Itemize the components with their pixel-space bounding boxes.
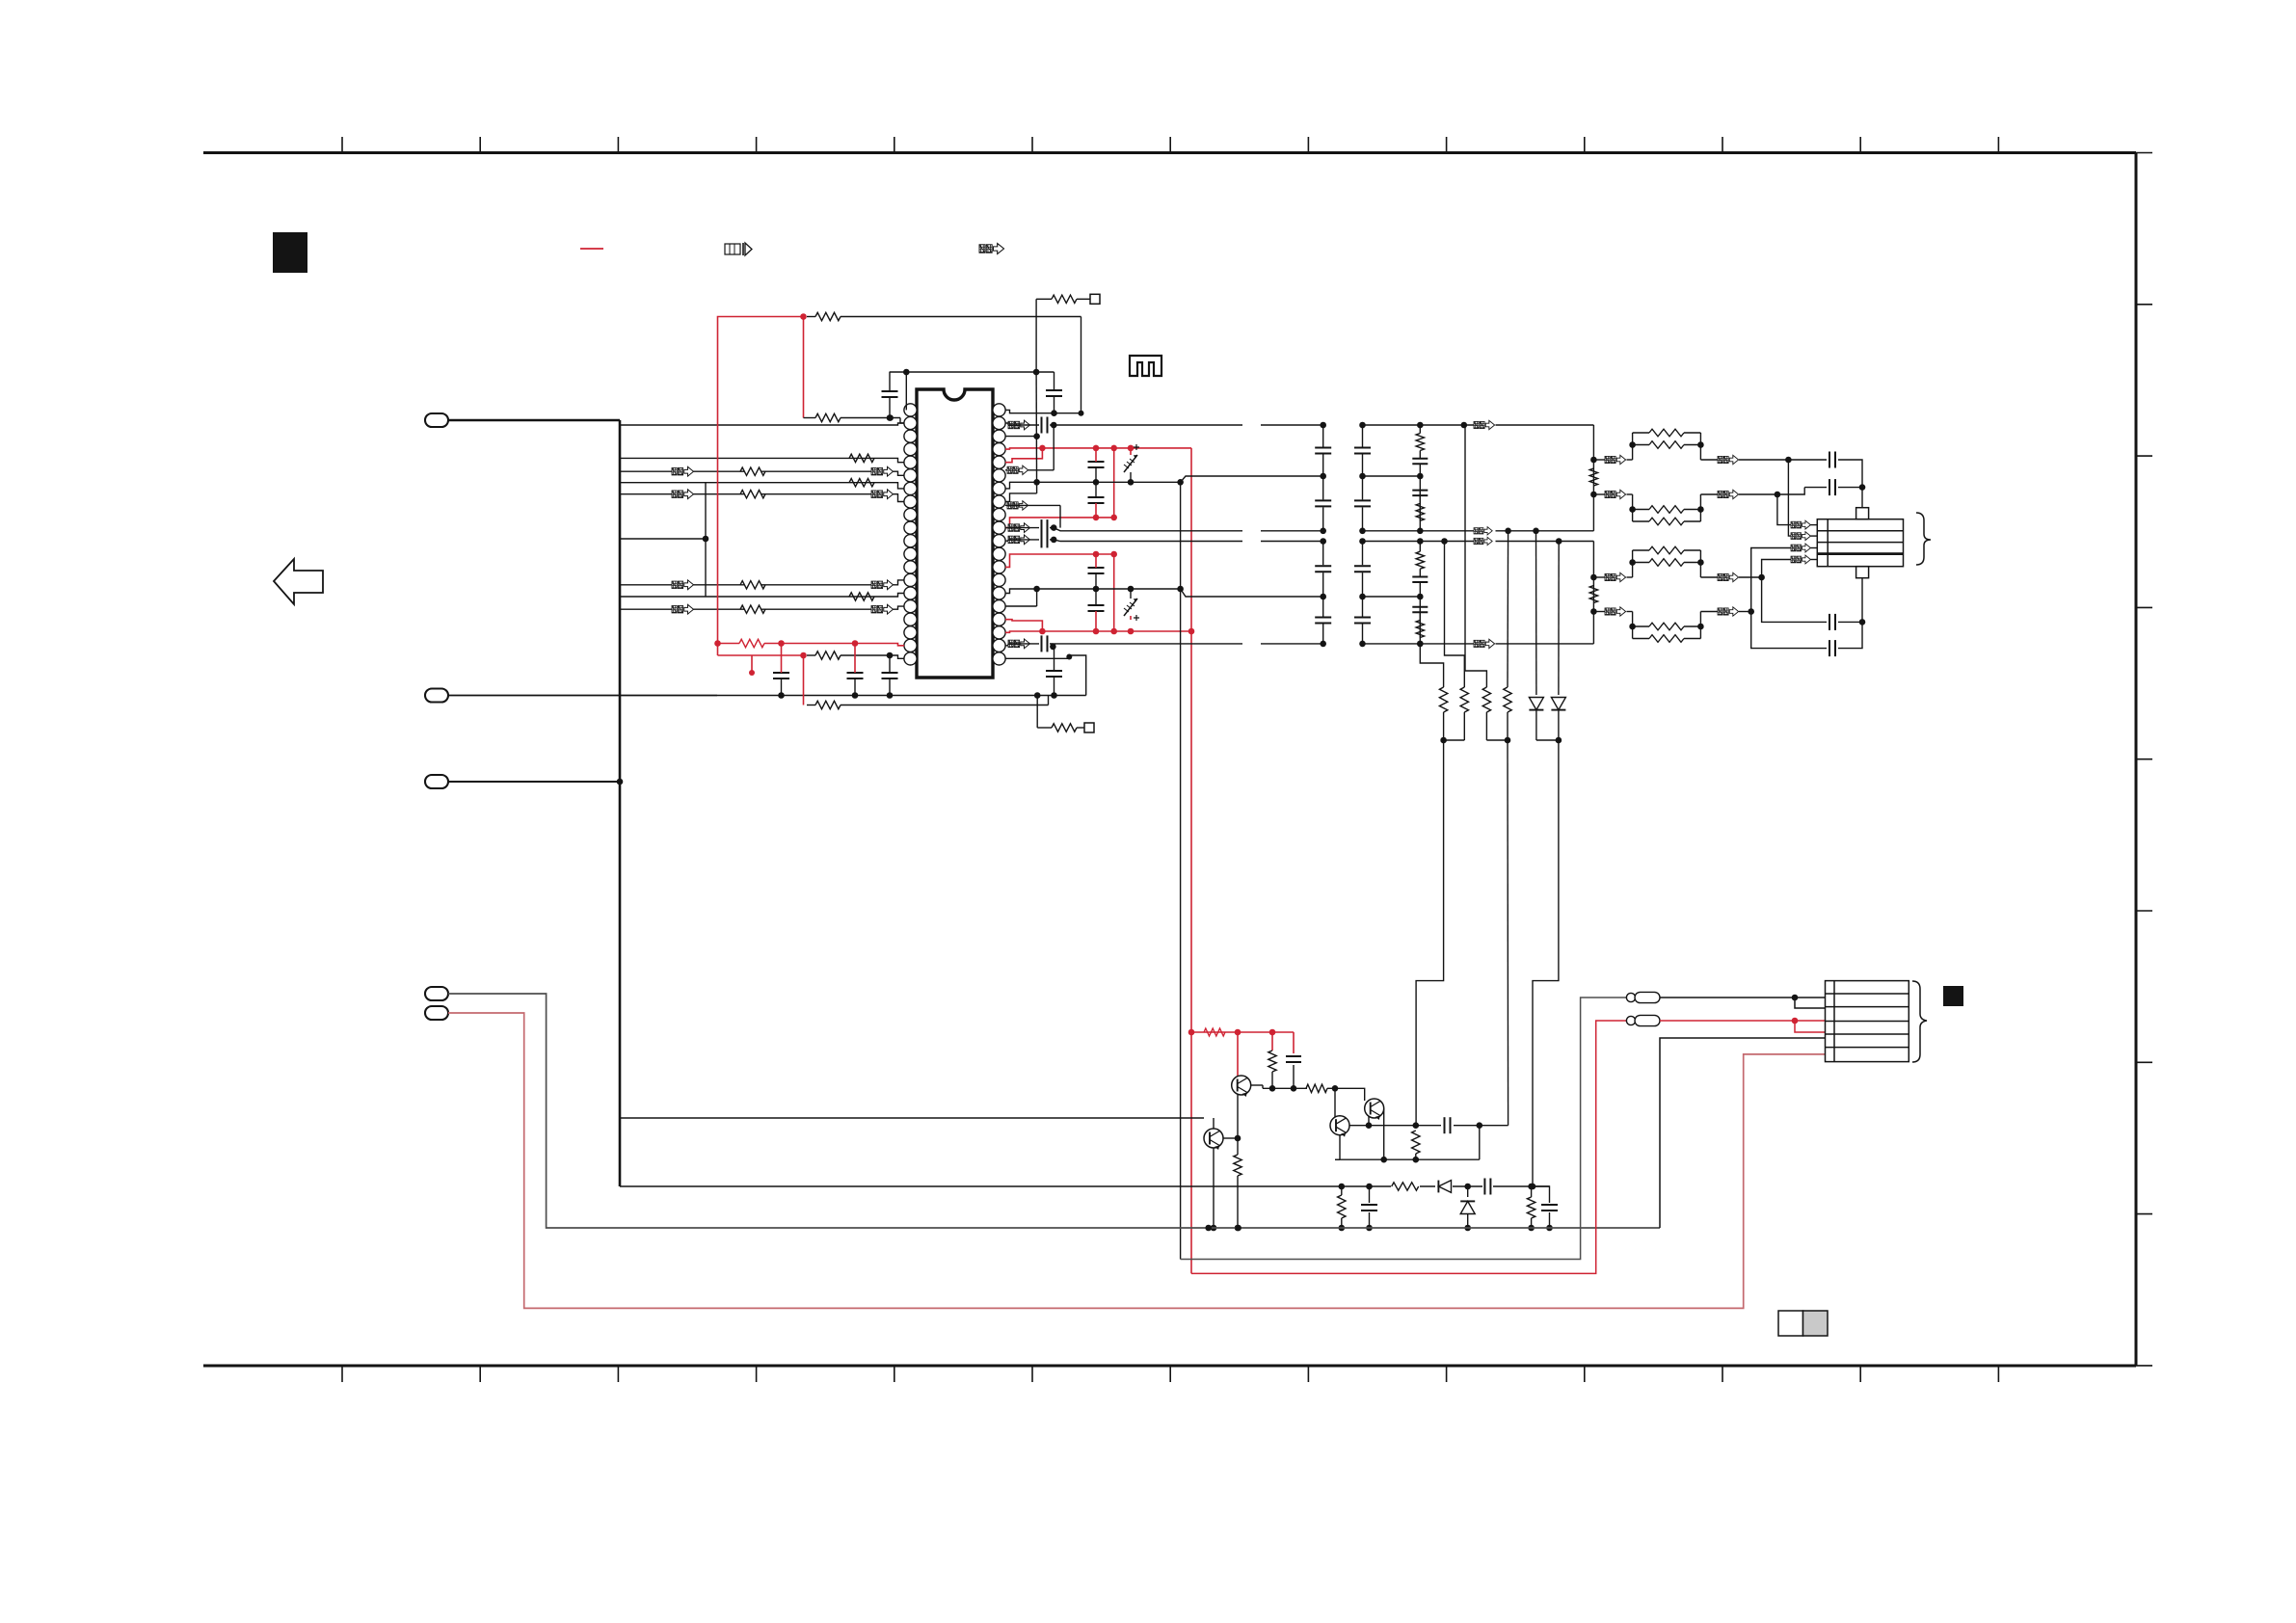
left plain rows bus to IC xyxy=(620,423,904,597)
row 494 end xyxy=(0,0,1,1)
RCA plug P2 xyxy=(1626,1015,1660,1025)
red jog pin5 xyxy=(1005,448,1042,463)
wire CN2 ground rail lead xyxy=(448,695,717,697)
page frame right border xyxy=(2135,153,2138,1367)
connector CN1 xyxy=(425,413,448,427)
desc wire v2 xyxy=(1444,542,1469,741)
transistor Q4 xyxy=(1204,1129,1223,1151)
top border fold ticks xyxy=(342,137,1998,153)
black rail mid1 xyxy=(1014,479,1184,486)
Q3 base link xyxy=(1335,1088,1365,1101)
long wire v1 xyxy=(1416,740,1444,1126)
trimmer RV2 xyxy=(1124,589,1139,621)
Q3 emitter down xyxy=(1383,1108,1385,1159)
IC U1 body xyxy=(917,389,993,678)
audio row2 xyxy=(1005,519,1242,536)
resistor pair RP1 xyxy=(1593,429,1718,460)
left arrow rows bus to IC xyxy=(620,471,904,609)
red wire to Q1 xyxy=(1237,1032,1239,1076)
resistor pair RP4 xyxy=(1593,612,1718,643)
Q4 wires xyxy=(1214,1118,1241,1141)
cap C16 xyxy=(1416,1117,1482,1133)
red link C-D xyxy=(1113,554,1115,631)
resistor pair RP3 xyxy=(1593,546,1718,577)
branch right upper xyxy=(1181,476,1323,482)
row 552 to ladder xyxy=(1420,527,1593,535)
desc diode D3 xyxy=(1529,531,1559,740)
long wire v2 xyxy=(1507,740,1509,1126)
desc wire v4 xyxy=(1504,531,1511,744)
connector CN4 xyxy=(425,987,448,1000)
cap C13 xyxy=(1762,577,1866,630)
left pin net arrows xyxy=(871,466,894,614)
wire TP2 lead xyxy=(1037,727,1084,729)
headphone block J2 xyxy=(1826,981,1909,1062)
IC top rail xyxy=(890,369,1055,376)
motor M1 brace xyxy=(1916,513,1931,565)
resistor R7 to TP2 xyxy=(1052,724,1077,732)
cap C7 xyxy=(1088,448,1105,482)
red link A-B xyxy=(1113,448,1115,518)
transistor Q2 xyxy=(1330,1116,1349,1138)
page frame bottom border xyxy=(203,1365,2136,1368)
pin3 row xyxy=(1005,436,1037,438)
net arrow l2b xyxy=(1718,607,1754,616)
left row resistors mid xyxy=(740,467,765,613)
row 561 to ladder xyxy=(1420,537,1593,545)
net arrow u1b xyxy=(1718,455,1792,464)
vertical to TP1 xyxy=(1035,299,1037,372)
black main vertical xyxy=(1180,482,1182,1259)
black rail lower xyxy=(620,1184,1550,1190)
wire to motor top tab xyxy=(1861,488,1863,508)
ground long wire CN4 xyxy=(448,994,1660,1231)
row 619 end xyxy=(0,0,1,1)
test point TP1 xyxy=(1090,294,1100,304)
audio row3 xyxy=(1005,531,1242,547)
motor M1 block xyxy=(1817,519,1903,567)
RCA plug P1 xyxy=(1626,992,1660,1002)
red rail D xyxy=(1014,628,1194,635)
row 668 to ladder xyxy=(1417,639,1593,648)
red branch to row2L xyxy=(803,317,805,418)
red stub node xyxy=(749,655,755,676)
right pin jogs black xyxy=(1005,410,1014,593)
ladder vertical upper xyxy=(1590,425,1597,531)
signal long wire xyxy=(1181,998,1631,1260)
cap C1 top-left xyxy=(882,372,898,421)
collector line xyxy=(1369,1122,1419,1129)
cap C4 xyxy=(847,644,864,696)
black rail mid2 xyxy=(1014,586,1184,593)
resistor R13 xyxy=(1412,1131,1420,1159)
red row20L xyxy=(718,652,807,659)
motor M1 bottom tab xyxy=(1856,567,1869,578)
page-link arrow (to previous sheet) xyxy=(274,559,323,604)
inductor L1 xyxy=(1242,422,1323,425)
resistor pair RP2 xyxy=(1593,494,1718,525)
net arrow l1b xyxy=(1718,572,1765,581)
Q1 collector wire xyxy=(1251,1085,1307,1088)
motor feed row1 xyxy=(1777,494,1817,529)
resistor R3 xyxy=(815,413,841,421)
plug2 to block red xyxy=(1660,1018,1826,1032)
wire Q2 base riser xyxy=(1334,1088,1336,1118)
cap C10 xyxy=(1088,589,1105,631)
audio row1 xyxy=(1005,417,1242,434)
resistor R14 xyxy=(1234,1138,1241,1231)
motor feed row2 xyxy=(1788,460,1817,541)
wire top feedback vertical xyxy=(1079,317,1084,416)
cap C14 xyxy=(1751,612,1862,657)
resistor R12 xyxy=(1306,1084,1338,1092)
wire CN3 to bus xyxy=(448,779,623,785)
red net row19L xyxy=(714,640,739,647)
row 441 to ladder xyxy=(1420,420,1593,429)
transistor Q3 xyxy=(1365,1099,1384,1121)
Q2-Q3 link xyxy=(1349,1116,1372,1129)
bank row links xyxy=(1363,425,1421,644)
red wire to R11 xyxy=(1271,1032,1273,1051)
net arrow u2b xyxy=(1718,490,1780,498)
wire R5 row xyxy=(807,652,904,659)
ground rail under IC xyxy=(717,692,1086,699)
inductor L2 xyxy=(1242,528,1323,531)
cap C11 xyxy=(1788,452,1862,488)
branch right lower xyxy=(1181,589,1323,597)
cap C9 xyxy=(1088,554,1105,589)
right pin jogs red xyxy=(1005,448,1014,632)
resistor R17 xyxy=(1527,1186,1535,1231)
resistor R2 xyxy=(815,312,841,320)
IC U1 right pins xyxy=(993,404,1005,665)
Q2 emitter link xyxy=(1335,1135,1340,1160)
motor feed row4 xyxy=(1762,555,1818,577)
power bus vertical xyxy=(619,420,622,1186)
plug1 to block xyxy=(1660,995,1826,1008)
black square marker right xyxy=(1943,986,1963,1006)
pin7 jog xyxy=(1014,492,1037,494)
red bias resistor R10 xyxy=(1204,1028,1225,1036)
red rail A xyxy=(1014,445,1191,452)
cap C8 xyxy=(1088,482,1105,518)
diode D6 xyxy=(1460,1186,1475,1231)
resistor R6 xyxy=(815,701,841,708)
red branch row21 xyxy=(803,655,805,705)
test point TP2 xyxy=(1084,723,1094,732)
wire rail to pin1L xyxy=(905,372,907,410)
wire R2 row xyxy=(807,316,1081,318)
trimmer RV1 xyxy=(1124,444,1139,482)
resistor R16 xyxy=(1338,1186,1346,1231)
audio row1 fb link xyxy=(1005,425,1054,474)
cap C5 xyxy=(882,655,898,696)
wire CN1 to bus xyxy=(448,419,620,422)
legend black square marker xyxy=(273,232,307,273)
transistor Q1 xyxy=(1232,1076,1251,1098)
waveform comb symbol xyxy=(1130,356,1161,376)
snubber column xyxy=(1412,422,1428,648)
vertical to TP2 xyxy=(1036,696,1038,729)
right border fold ticks xyxy=(2136,153,2152,1366)
desc diode D4 xyxy=(1551,542,1565,744)
left mid net arrows xyxy=(672,466,694,614)
cap C3 xyxy=(773,644,789,696)
cap C2 top-right xyxy=(1046,372,1062,416)
legend net-label symbol A xyxy=(725,243,752,255)
series cap C17 xyxy=(1482,1178,1493,1195)
legend net-label symbol B xyxy=(979,243,1004,253)
emitter rail xyxy=(1335,1126,1480,1163)
connector CN5 xyxy=(425,1006,448,1020)
audio row4 xyxy=(1005,635,1242,652)
cap C12 xyxy=(1804,479,1865,495)
vertical AVss xyxy=(1033,372,1040,493)
resistor R5 xyxy=(815,652,841,659)
stub row to node xyxy=(620,536,708,543)
cap C19 xyxy=(1532,1186,1558,1231)
page frame top border xyxy=(203,151,2136,154)
red rail C xyxy=(1014,551,1117,558)
IC U1 left pins xyxy=(904,404,917,665)
ladder resistor R8 xyxy=(1589,468,1597,486)
left row resistors near IC xyxy=(849,454,874,600)
legend checkbox pair xyxy=(1778,1311,1828,1336)
long wire v3 xyxy=(1533,740,1559,1186)
motor feed row3 xyxy=(1751,544,1818,611)
red signal long wire xyxy=(1191,1021,1631,1273)
resistor R11 xyxy=(1268,1051,1276,1092)
resistor R1 to TP1 xyxy=(1052,295,1077,303)
legend red wire sample xyxy=(580,248,603,250)
red net top elbow xyxy=(718,313,807,655)
bottom border fold ticks xyxy=(342,1366,1998,1382)
desc wire v3 xyxy=(1465,425,1508,740)
right row20 link xyxy=(1005,654,1086,696)
wire TP1 lead xyxy=(1036,298,1090,300)
cap C6 xyxy=(1046,647,1062,696)
wire R3 row xyxy=(804,414,905,423)
Q4 emitter xyxy=(1211,1148,1217,1231)
Q1 base link xyxy=(1237,1095,1239,1138)
wire R6 row xyxy=(807,696,1049,705)
wire to v2 xyxy=(1480,1125,1508,1127)
pin16 jog xyxy=(1005,589,1037,606)
inductor L3 xyxy=(1242,539,1323,542)
connector CN2 xyxy=(425,689,448,703)
block J2 brace xyxy=(1912,981,1927,1062)
red main vertical xyxy=(1190,448,1192,1274)
red wire cap C15 xyxy=(1286,1032,1301,1092)
red jog pin12 xyxy=(1005,620,1042,631)
resistor R4 red xyxy=(739,639,904,647)
ground wire riser xyxy=(1660,1038,1826,1228)
motor M1 top tab xyxy=(1856,508,1869,519)
Q4 base wire xyxy=(620,1117,1204,1119)
net arrows ladder left xyxy=(1605,455,1626,616)
red bias rail xyxy=(1188,1029,1294,1036)
ladder resistor R9 xyxy=(1589,586,1597,603)
desc wire v1 xyxy=(1420,644,1448,743)
red long wire CN5 xyxy=(448,1013,1826,1308)
wire pin1R row xyxy=(1014,412,1081,414)
connector CN3 xyxy=(425,775,448,788)
ladder vertical lower xyxy=(1590,542,1597,644)
cap C18 xyxy=(1361,1186,1377,1231)
filter capacitor bank xyxy=(1315,422,1371,648)
row2 arrow link xyxy=(1005,501,1060,528)
left vertical link node xyxy=(705,483,707,597)
wire to motor bottom tab xyxy=(1861,578,1863,623)
red rail B xyxy=(1014,515,1117,521)
inductor L4 xyxy=(1242,641,1323,644)
series resistor R15 xyxy=(1391,1180,1420,1193)
series diode D5 xyxy=(1435,1180,1453,1193)
wire u2 ext xyxy=(1777,488,1804,494)
